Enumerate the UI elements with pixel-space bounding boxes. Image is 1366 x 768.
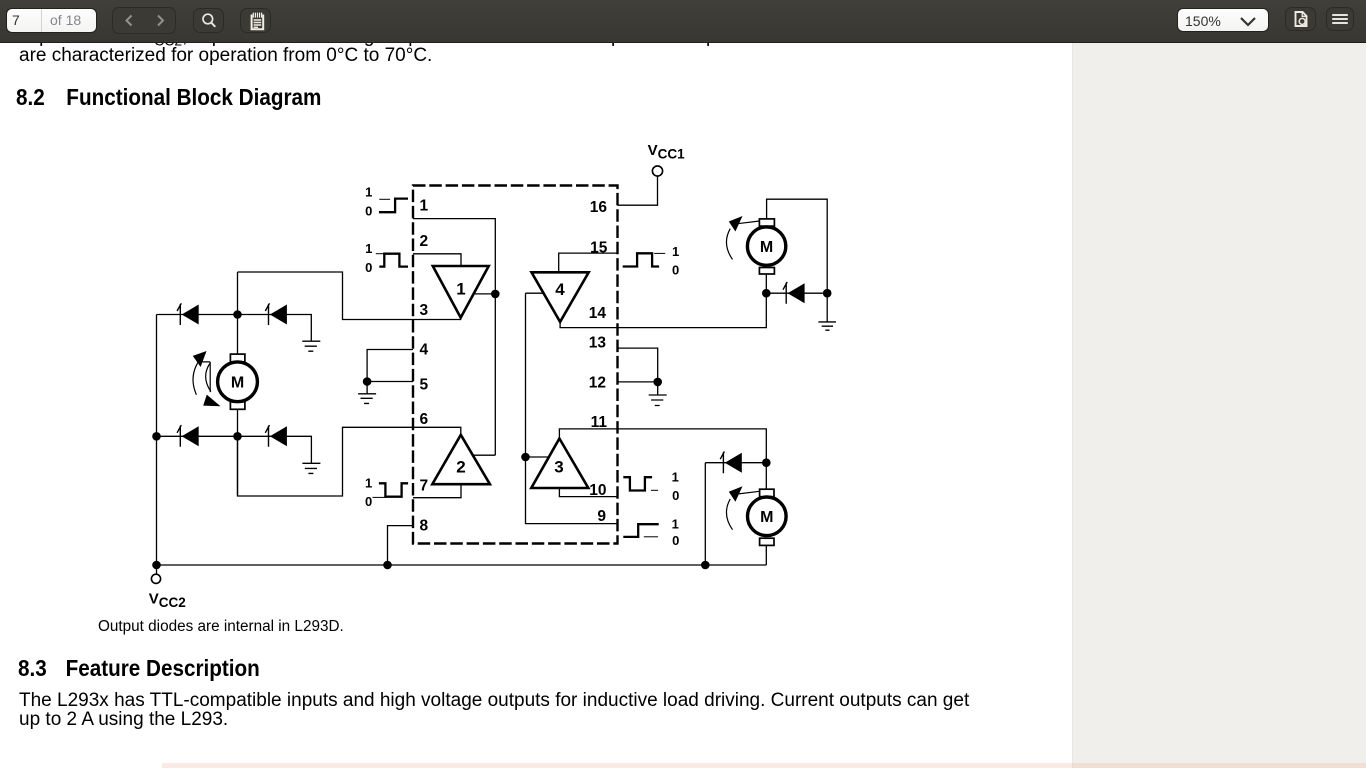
pulse waveform pin 9	[623, 517, 679, 549]
wire right motor top loop	[767, 199, 828, 293]
wire pin6 output 2	[238, 427, 461, 496]
svg-text:3: 3	[554, 457, 563, 476]
wire bottom VCC2 rail	[157, 564, 767, 566]
svg-text:12: 12	[589, 374, 606, 391]
page number entry	[6, 8, 97, 33]
svg-text:6: 6	[420, 411, 429, 428]
wire right bottom motor stem	[765, 463, 767, 565]
node motor M2 bottom / diode D5	[762, 289, 771, 298]
svg-text:15: 15	[590, 239, 608, 256]
annotation button	[240, 8, 271, 33]
wire pin8 VCC2	[388, 526, 414, 565]
svg-text:VCC1: VCC1	[648, 142, 686, 162]
diode D2 left row1 right	[265, 303, 287, 325]
pin number labels	[420, 197, 608, 534]
body line: are characterized	[19, 46, 432, 65]
junction dots	[152, 289, 831, 569]
rotation arrow motor M1	[193, 351, 221, 406]
svg-text:4: 4	[420, 341, 429, 358]
ground symbol pins 12,13	[649, 382, 667, 406]
svg-text:0: 0	[365, 204, 372, 219]
svg-text:M: M	[760, 509, 773, 526]
diode D1 left row1 left	[177, 303, 199, 325]
wire pin12 ground	[618, 381, 658, 383]
document properties button	[1285, 7, 1316, 31]
ground symbol pins 4,5	[358, 382, 376, 404]
svg-text:11: 11	[591, 414, 608, 431]
search button	[193, 8, 224, 33]
svg-text:1: 1	[672, 517, 679, 532]
ground symbol right top	[818, 322, 836, 330]
wire left motor bottom branch	[237, 409, 239, 496]
svg-text:1: 1	[672, 244, 679, 259]
node 3,4EN at driver 3	[521, 453, 530, 462]
svg-text:0: 0	[365, 260, 372, 275]
svg-text:16: 16	[590, 199, 608, 216]
amplifier driver 3	[531, 439, 588, 489]
pulse waveform pin 1	[365, 185, 408, 219]
svg-text:3: 3	[420, 302, 429, 319]
rotation arrow motor M2	[726, 216, 759, 259]
node diode row1 / motor M1 top	[233, 310, 242, 319]
diode D5 right top	[783, 282, 805, 304]
node bottom rail / pin 8	[383, 561, 392, 570]
wire pin1 1,2EN net	[413, 219, 495, 456]
pulse waveform pin 7	[365, 476, 408, 509]
svg-text:4: 4	[555, 280, 565, 299]
svg-text:0: 0	[672, 488, 679, 503]
wire left diode row top	[157, 315, 312, 342]
wire pin7 input 2	[413, 484, 461, 498]
ground symbol at left diode row top	[302, 341, 320, 351]
heading 8.2	[16, 86, 321, 110]
motor M1 left	[218, 354, 258, 409]
rotation arrow motor M3	[726, 486, 759, 529]
wire right bottom diode row	[705, 462, 766, 464]
pulse waveform pin 15	[623, 244, 680, 277]
svg-text:M: M	[760, 239, 773, 256]
wire motor M2 bottom stub	[765, 274, 767, 293]
wire pin9 3,4EN net	[526, 293, 618, 523]
amplifier driver 2	[432, 435, 490, 484]
svg-text:1: 1	[420, 197, 429, 214]
node bottom rail / VCC2 terminal	[152, 561, 161, 570]
svg-text:VCC2: VCC2	[149, 591, 186, 610]
wire right top ground stem	[826, 293, 828, 322]
wire pin13 ground	[618, 348, 658, 382]
wire pin10 input 3	[559, 488, 617, 497]
svg-text:9: 9	[597, 508, 606, 525]
svg-text:2: 2	[420, 233, 429, 250]
ground symbol at left diode row bottom	[302, 463, 320, 473]
svg-text:7: 7	[420, 478, 429, 495]
hamburger menu button	[1326, 7, 1354, 31]
node diode D5 cathode / ground	[823, 289, 832, 298]
svg-text:1: 1	[365, 476, 372, 491]
svg-text:1: 1	[365, 185, 372, 200]
driver number labels	[456, 279, 565, 476]
figure caption	[98, 619, 344, 635]
pink strip at bottom (next page edge)	[162, 763, 1366, 768]
svg-text:1: 1	[456, 279, 465, 298]
svg-text:0: 0	[672, 263, 679, 278]
svg-text:1: 1	[365, 241, 372, 256]
wire pin2 input 1	[413, 254, 461, 266]
amplifier driver 1	[433, 266, 489, 318]
wire pin11 output 3	[559, 429, 766, 463]
wire left motor top branch	[237, 272, 239, 354]
wire right top diode row	[766, 292, 827, 294]
wire left rail VCC2	[156, 315, 158, 566]
wire right bottom left branch	[704, 463, 706, 565]
pulse waveform pin 10	[623, 470, 679, 503]
svg-text:10: 10	[589, 482, 606, 499]
node left rail / diode row2	[152, 432, 161, 441]
diode D3 left row2 left	[177, 425, 199, 447]
wire pin4 ground	[367, 350, 413, 382]
svg-text:5: 5	[420, 377, 429, 394]
motor M3 right bottom	[748, 489, 787, 545]
wire pin15 input 4	[559, 253, 618, 272]
toolbar	[0, 0, 1366, 43]
diode D4 left row2 right	[265, 425, 287, 447]
heading 8.3	[18, 657, 260, 681]
svg-text:M: M	[231, 375, 244, 392]
pulse waveform pin 2	[365, 241, 408, 275]
node bottom rail / diode D6 branch	[701, 561, 710, 570]
bottom paragraph	[19, 691, 969, 729]
svg-text:13: 13	[589, 335, 607, 352]
node pins 4,5 ground	[363, 377, 372, 386]
wire VCC2 terminal stub	[156, 565, 158, 574]
svg-text:8: 8	[420, 518, 429, 535]
node motor M3 top / diode D6	[762, 458, 771, 467]
zoom level entry	[1177, 8, 1269, 32]
side background right of page	[1072, 42, 1366, 768]
IC package dashed box U1 (L293)	[413, 186, 618, 544]
diode D6 right bottom	[720, 452, 742, 474]
svg-text:14: 14	[589, 305, 607, 322]
svg-text:0: 0	[365, 494, 372, 509]
prev/next button group	[112, 7, 176, 34]
node pins 12,13 ground	[653, 378, 662, 387]
svg-text:1: 1	[672, 470, 679, 485]
wire pin5 ground	[367, 381, 413, 383]
svg-text:0: 0	[672, 533, 679, 548]
svg-text:2: 2	[456, 458, 465, 477]
motor M2 right top	[747, 219, 785, 274]
VCC1 terminal	[648, 142, 686, 176]
wire pin3 output 1	[238, 272, 461, 320]
wire left diode row bottom	[157, 436, 312, 463]
node 1,2EN at driver 1	[491, 290, 500, 299]
amplifier driver 4	[532, 272, 589, 322]
wire pin14 output 4	[560, 293, 766, 327]
VCC2 terminal	[149, 574, 186, 610]
partial clipped text line at top	[19, 27, 947, 51]
node diode row2 / motor M1 bottom	[233, 432, 242, 441]
wire pin16 VCC1	[618, 176, 658, 205]
